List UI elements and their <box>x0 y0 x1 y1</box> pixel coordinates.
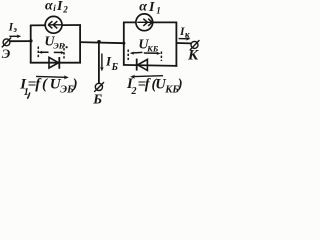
formula I1=f(U_ЭБ) <box>19 77 77 99</box>
current arrow I_К <box>179 37 191 41</box>
diode VD2 <box>137 59 148 71</box>
current source αiI2 (U1) <box>45 16 62 33</box>
current arrow I_Б <box>100 54 104 72</box>
wire left loop rectangle <box>30 25 81 64</box>
formula I2=f(U_КБ) <box>126 76 183 97</box>
current source αI1 (U2) <box>136 14 153 31</box>
svg-text:I: I <box>148 0 155 15</box>
svg-text:э: э <box>12 24 17 34</box>
junction node base <box>97 40 101 44</box>
dimension arrows U_ЭБ <box>38 51 65 55</box>
svg-text:2: 2 <box>131 86 137 97</box>
svg-text:КБ: КБ <box>146 44 159 54</box>
terminal Э (emitter) <box>2 38 11 48</box>
current arrow I_Э <box>9 35 21 39</box>
wire collector <box>176 42 191 44</box>
svg-text:α: α <box>139 0 147 14</box>
svg-text:): ) <box>71 77 78 93</box>
svg-text:α: α <box>45 0 53 14</box>
ink tail of subscript 1 <box>27 93 29 99</box>
dimension dashed lines U_ЭБ <box>38 44 64 59</box>
junction node at left loop <box>29 39 32 42</box>
arrow over f(U_КБ) <box>130 75 163 79</box>
terminal Б (base) <box>94 82 104 92</box>
svg-text:): ) <box>176 76 183 92</box>
svg-text:ЭБ: ЭБ <box>53 41 65 51</box>
junction node right loop <box>122 42 125 45</box>
dimension dashed lines U_КБ <box>128 50 161 62</box>
dimension arrows U_КБ <box>130 52 161 55</box>
ink speck <box>66 46 68 48</box>
svg-text:2: 2 <box>62 5 68 15</box>
svg-text:К: К <box>187 47 199 63</box>
wire emitter to left loop <box>10 40 32 42</box>
wire middle connecting loops <box>80 42 125 43</box>
terminal К (collector) <box>190 40 199 50</box>
arrow over f(U_ЭБ) <box>36 75 69 79</box>
wire base down <box>98 42 100 83</box>
svg-text:Б: Б <box>111 62 119 73</box>
svg-text:1: 1 <box>156 5 161 15</box>
wire right loop rectangle <box>123 22 177 66</box>
svg-text:Б: Б <box>92 93 102 106</box>
svg-text:I: I <box>56 0 63 14</box>
diode VD1 <box>49 57 59 69</box>
svg-text:Э: Э <box>2 46 11 61</box>
